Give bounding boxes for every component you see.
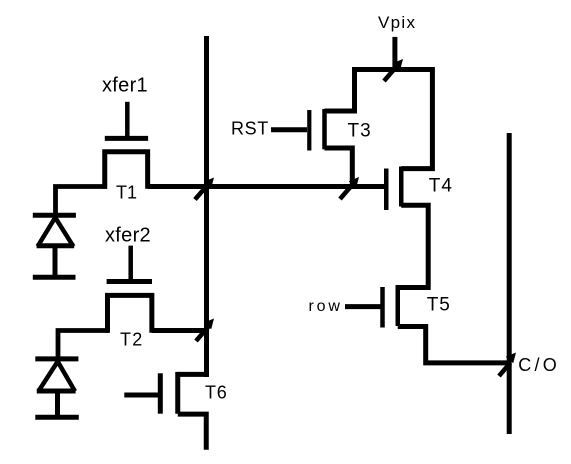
wire: left column bus upper segment	[204, 36, 209, 377]
transistor T6 gate lead stub	[124, 393, 158, 398]
svg-text:C/O: C/O	[518, 355, 560, 375]
svg-text:xfer1: xfer1	[102, 75, 148, 97]
transistor T2 gate lead	[128, 246, 133, 279]
transistor T1 channel with source/drain drops	[105, 152, 148, 189]
wire: floating diffusion node, T1 drain to T4 gate	[148, 184, 384, 189]
transistor T1 gate bar	[105, 136, 148, 141]
photodiode D2 triangle right side	[58, 362, 75, 392]
wire: T2 source to photodiode D2	[58, 331, 109, 363]
transistor T3 gate lead	[271, 127, 307, 132]
wire: T4 source down to T5 drain	[398, 205, 428, 287]
svg-text:T1: T1	[116, 183, 137, 203]
wire: T1 source to photodiode D1	[56, 187, 108, 220]
svg-text:xfer2: xfer2	[105, 225, 151, 247]
transistor T2 channel with source/drain drops	[108, 295, 152, 332]
svg-text:Vpix: Vpix	[378, 13, 416, 32]
transistor T4 gate bar	[384, 169, 389, 211]
svg-text:T2: T2	[120, 330, 143, 350]
wire: T6 source lead and bus lower segment	[178, 414, 207, 450]
photodiode D2 anode lead	[55, 392, 60, 417]
transistor T3 channel	[322, 109, 327, 149]
svg-text:row: row	[309, 298, 343, 315]
transistor T3 gate bar	[307, 110, 311, 151]
wire: output column bus	[507, 133, 512, 434]
ground bar below D1	[33, 275, 76, 280]
junction arrow at output column C/O tap	[499, 353, 516, 377]
transistor T5 gate bar	[380, 287, 385, 328]
photodiode D1 cathode bar	[33, 213, 76, 218]
wire: T6 drain lead to column bus	[178, 372, 209, 377]
photodiode D1 anode bar	[37, 243, 75, 248]
transistor T6 gate bar	[158, 373, 163, 413]
transistor T4 channel	[399, 167, 404, 207]
svg-text:RST: RST	[231, 119, 269, 139]
junction arrow at floating diffusion / column bus crossing	[195, 178, 214, 200]
junction arrow at T2 drain / column bus junction	[196, 319, 214, 342]
photodiode D1 triangle right side	[55, 218, 73, 247]
wire: T2 drain to column bus	[152, 328, 209, 333]
junction arrow at Vpix tap	[384, 59, 403, 81]
photodiode D2 triangle left side	[38, 362, 57, 392]
wire: Vpix supply lead	[392, 37, 397, 72]
photodiode D2 cathode bar	[35, 356, 78, 361]
svg-text:T6: T6	[205, 383, 228, 403]
wire: T5 source down and out to output column	[398, 327, 509, 363]
photodiode D1 anode lead	[53, 246, 58, 277]
wire: T3 drain up, top rail, down to T4 drain	[325, 70, 433, 169]
transistor T1 gate lead	[125, 102, 130, 136]
svg-text:T5: T5	[427, 295, 451, 316]
transistor T6 channel	[175, 372, 180, 414]
transistor T5 gate lead	[345, 304, 381, 309]
transistor T5 channel	[396, 285, 401, 326]
photodiode D1 triangle left side	[38, 218, 56, 247]
ground bar below D2	[35, 415, 79, 420]
svg-text:T4: T4	[429, 176, 453, 197]
svg-text:T3: T3	[348, 121, 372, 142]
transistor T2 gate bar	[107, 279, 152, 284]
junction arrow at T3 source junction	[340, 177, 359, 199]
photodiode D2 anode bar	[37, 389, 76, 394]
wire: T3 source down to floating diffusion wire	[325, 148, 353, 187]
